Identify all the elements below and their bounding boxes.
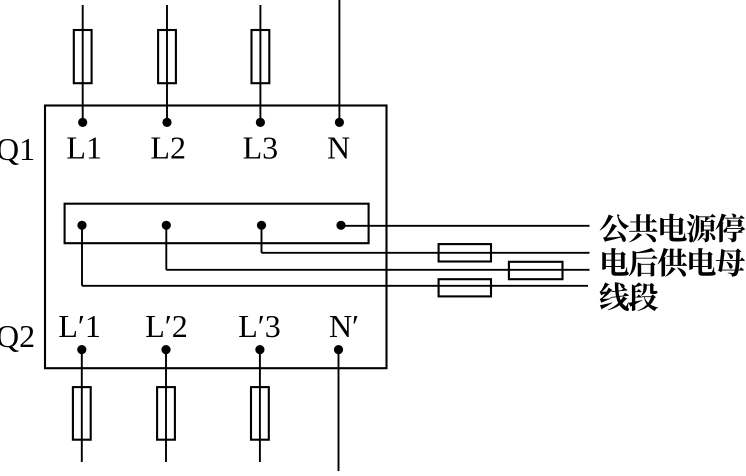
wire L'3 outgoing feeder: [259, 350, 261, 462]
label 电后供电母 (annotation line 2): [602, 248, 745, 277]
wire bus tap 1 drop: [81, 225, 83, 285]
node bus tap 1: [77, 221, 86, 230]
wire L1 incoming supply: [82, 5, 84, 122]
node N terminal: [335, 118, 344, 127]
wire L'1 outgoing feeder: [81, 350, 83, 462]
node bus tap 3: [257, 221, 266, 230]
svg-text:L3: L3: [243, 130, 279, 166]
wire N' outgoing neutral: [338, 350, 340, 471]
fuse on tie line 3: [509, 262, 563, 279]
wire bus tap 3 drop: [261, 225, 263, 253]
fuse FU4 (L'1 feeder): [73, 387, 91, 440]
svg-text:L1: L1: [66, 130, 102, 166]
wire tie line 2: [262, 252, 590, 254]
node L'1 terminal: [77, 345, 86, 354]
node L'2 terminal: [161, 345, 170, 354]
wire bus tap 4 to annotation line 1: [341, 225, 590, 227]
wire L3 incoming supply: [259, 5, 261, 122]
wire tie line 4: [82, 285, 588, 287]
svg-text:N′: N′: [329, 308, 359, 344]
wire L'2 outgoing feeder: [165, 350, 167, 462]
fuse FU3 (L3 incoming): [252, 30, 270, 83]
node L2 terminal: [162, 118, 171, 127]
svg-text:N: N: [327, 130, 350, 166]
fuse FU2 (L2 incoming): [158, 30, 176, 83]
fuse on tie line 4: [439, 279, 491, 296]
node N' terminal: [334, 345, 343, 354]
wire N incoming neutral: [338, 0, 340, 122]
svg-text:L′3: L′3: [238, 308, 281, 344]
fuse on tie line 2: [439, 244, 491, 261]
label 线段 (annotation line 3): [600, 282, 658, 311]
switchgear cabinet box (Q1/Q2): [45, 106, 387, 369]
fuse FU1 (L1 incoming): [74, 30, 92, 83]
node L1 terminal: [78, 118, 87, 127]
node L'3 terminal: [255, 345, 264, 354]
node bus tap 2: [162, 221, 171, 230]
svg-text:L′2: L′2: [145, 308, 188, 344]
fuse FU6 (L'3 feeder): [251, 387, 269, 440]
fuse FU5 (L'2 feeder): [157, 387, 175, 440]
svg-text:Q2: Q2: [0, 318, 35, 354]
wire L2 incoming supply: [166, 5, 168, 122]
node bus tap 4: [336, 221, 345, 230]
node L3 terminal: [256, 118, 265, 127]
wire tie line 3: [166, 269, 589, 271]
svg-text:L2: L2: [150, 130, 186, 166]
svg-text:L′1: L′1: [58, 308, 101, 344]
busbar section rectangle: [65, 204, 369, 244]
wire bus tap 2 drop: [165, 225, 167, 269]
label 公共电源停 (annotation line 1): [600, 213, 746, 242]
svg-text:Q1: Q1: [0, 131, 35, 167]
